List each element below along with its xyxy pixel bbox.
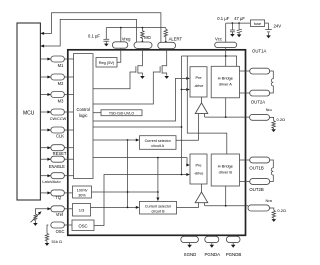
wire H-bridge B to NFB bbox=[205, 186, 248, 207]
pin OSC bbox=[51, 222, 72, 234]
Vreg pull-up rail bbox=[106, 27, 166, 29]
sense resistor RNFA 0.2ohm bbox=[269, 117, 285, 129]
svg-text:NFB: NFB bbox=[266, 199, 273, 203]
svg-text:OUT1A: OUT1A bbox=[252, 48, 266, 53]
svg-text:H-Bridge: H-Bridge bbox=[218, 76, 233, 81]
pin MO bbox=[134, 35, 152, 48]
comparator amp A bbox=[195, 97, 208, 114]
wire MCU to Latch/Auto bbox=[40, 175, 48, 177]
ground below PGNDB bbox=[231, 243, 236, 248]
pin ENABLE bbox=[49, 156, 74, 169]
wire Vcc rail to H-bridge B bbox=[187, 56, 227, 154]
svg-text:Pre: Pre bbox=[195, 163, 201, 168]
wire control logic to pre-drive A input 2 bbox=[93, 56, 190, 175]
wire current selector B to amp B bbox=[177, 203, 199, 208]
svg-text:100%/: 100%/ bbox=[77, 189, 89, 193]
svg-text:Current selector: Current selector bbox=[145, 139, 172, 143]
svg-text:0.1 μF: 0.1 μF bbox=[217, 16, 229, 21]
svg-text:24V: 24V bbox=[274, 23, 282, 28]
svg-text:Vcc: Vcc bbox=[215, 36, 222, 41]
pin PGNDA bbox=[204, 236, 220, 257]
ground below C1 bbox=[104, 41, 109, 46]
svg-text:MO: MO bbox=[144, 35, 151, 40]
svg-text:driver A: driver A bbox=[219, 82, 233, 87]
wire H-bridge A to OUT2A bbox=[240, 92, 250, 94]
pin RESET bbox=[51, 145, 74, 157]
svg-text:OSC: OSC bbox=[78, 224, 87, 229]
wire MCU to TQ bbox=[40, 192, 48, 194]
MOSFET Q2 (ALERT output) bbox=[160, 49, 167, 76]
ground at Q1 source bbox=[140, 76, 145, 79]
pin ALERT bbox=[158, 37, 183, 49]
wire to current selector B top bbox=[156, 158, 159, 202]
MCU block bbox=[17, 23, 40, 200]
wire MCU to M3 bbox=[40, 94, 48, 96]
svg-text:PGNDB: PGNDB bbox=[226, 252, 242, 257]
pull-up resistor on MO bbox=[141, 28, 144, 43]
pin OUT2A bbox=[250, 90, 270, 104]
wire H-bridge B to OUT2B bbox=[240, 181, 250, 183]
wire H-bridge B to OUT1B bbox=[240, 159, 250, 161]
ground below C2 bbox=[230, 32, 235, 37]
sense resistor RNFB 0.2ohm bbox=[269, 208, 286, 219]
motor winding A bbox=[269, 71, 273, 93]
svg-text:M1: M1 bbox=[58, 63, 64, 68]
svg-text:Vreg: Vreg bbox=[122, 37, 131, 42]
svg-text:TSD·ISD·UVLO: TSD·ISD·UVLO bbox=[109, 111, 135, 115]
ground below RNFA bbox=[271, 129, 276, 132]
battery 24V bbox=[265, 23, 281, 32]
svg-text:47 μF: 47 μF bbox=[234, 16, 245, 21]
wire current selector A to amp A bbox=[176, 114, 198, 141]
svg-text:Pre: Pre bbox=[195, 75, 201, 80]
potentiometer VR1 on Vref bbox=[31, 207, 52, 222]
motor winding B bbox=[269, 160, 273, 182]
svg-text:TQ: TQ bbox=[55, 195, 61, 200]
current selector circuit B block bbox=[140, 201, 177, 214]
pin CW/CCW bbox=[50, 109, 74, 121]
Vcc internal rail bbox=[182, 48, 237, 67]
svg-text:PGNDA: PGNDA bbox=[204, 252, 220, 257]
pin PGNDB bbox=[226, 236, 242, 257]
svg-text:ALERT: ALERT bbox=[169, 37, 183, 42]
resistor R-OSC 51k bbox=[45, 225, 62, 244]
wire control logic to current selector A bbox=[93, 139, 139, 142]
wire control logic to pre-drive A input 1 bbox=[93, 77, 190, 121]
svg-text:Latch/Auto: Latch/Auto bbox=[42, 180, 60, 184]
wire MCU to RESET bbox=[40, 147, 48, 149]
ground below potentiometer bbox=[33, 221, 38, 226]
wire H-bridge A to NFA bbox=[205, 98, 250, 118]
svg-text:1/3: 1/3 bbox=[79, 208, 85, 213]
svg-text:MCU: MCU bbox=[23, 111, 35, 117]
pin OUT1B bbox=[249, 157, 269, 170]
TSD ISD UVLO block bbox=[101, 110, 142, 116]
100%/30% block bbox=[73, 186, 92, 198]
wire MCU to CLK bbox=[40, 129, 48, 131]
wire node vertical to current selector B side bbox=[127, 140, 129, 207]
wire MCU to ENABLE bbox=[40, 158, 48, 160]
pre-drive A block bbox=[190, 67, 207, 97]
svg-text:OUT2B: OUT2B bbox=[249, 187, 263, 192]
pin CLK bbox=[51, 127, 74, 138]
svg-text:0.2Ω: 0.2Ω bbox=[277, 117, 286, 122]
ground below C3 bbox=[237, 32, 242, 37]
ground below SGND bbox=[187, 243, 192, 248]
svg-text:51k Ω: 51k Ω bbox=[52, 239, 63, 244]
pin SGND bbox=[181, 236, 199, 257]
wire amp A feedback input bbox=[204, 114, 206, 118]
svg-text:logic: logic bbox=[79, 113, 88, 118]
H-bridge driver B block bbox=[211, 154, 239, 186]
wire control logic to TSD block bbox=[93, 112, 101, 114]
ground below PGNDA bbox=[210, 243, 215, 248]
wire 100%/30% block output bbox=[92, 191, 158, 193]
wire control logic to pre-drive B input 1 bbox=[93, 157, 190, 167]
wire control logic to MOSFET Q2 gate bbox=[93, 72, 160, 104]
IC U1 package outline bbox=[68, 50, 246, 236]
ground below RNFB bbox=[272, 219, 277, 222]
pin Vreg bbox=[112, 28, 131, 49]
Reg (5V) block bbox=[96, 48, 121, 67]
wire OSC block to pre-drive B input 2 bbox=[94, 173, 190, 226]
wire MCU to M2 bbox=[40, 76, 48, 78]
svg-text:RESET: RESET bbox=[53, 151, 67, 156]
H-bridge driver A block bbox=[211, 66, 239, 98]
svg-text:Reg (5V): Reg (5V) bbox=[99, 60, 115, 65]
svg-text:circuit B: circuit B bbox=[151, 210, 165, 214]
wire control logic to MOSFET Q1 gate bbox=[93, 72, 136, 89]
pull-up resistor on ALERT bbox=[164, 28, 167, 43]
pin NFB bbox=[248, 199, 272, 211]
wire ALERT to MCU bbox=[44, 13, 161, 43]
svg-text:CW/CCW: CW/CCW bbox=[50, 117, 67, 121]
svg-text:Current selector: Current selector bbox=[145, 204, 172, 208]
capacitor C2 0.1uF on Vcc bbox=[217, 16, 235, 32]
1/3 block bbox=[73, 204, 91, 217]
ground below battery bbox=[266, 33, 271, 39]
comparator amp B bbox=[195, 184, 208, 203]
control logic block bbox=[74, 54, 94, 179]
svg-text:circuit A: circuit A bbox=[151, 144, 164, 148]
svg-text:SGND: SGND bbox=[184, 252, 197, 257]
svg-text:M2: M2 bbox=[58, 81, 64, 86]
arrowhead into MCU (ALERT line) bbox=[40, 32, 44, 35]
svg-text:30%: 30% bbox=[78, 194, 86, 198]
pin Vcc bbox=[215, 23, 237, 48]
capacitor C1 0.1uF on Vreg bbox=[88, 28, 109, 42]
pin OUT1A bbox=[250, 48, 270, 74]
capacitor C3 47uF electrolytic on Vcc bbox=[234, 16, 245, 33]
svg-text:-drive: -drive bbox=[194, 83, 204, 88]
svg-text:OUT2A: OUT2A bbox=[251, 100, 265, 105]
svg-text:OUT1B: OUT1B bbox=[249, 166, 263, 171]
svg-text:ENABLE: ENABLE bbox=[49, 164, 65, 169]
OSC block bbox=[72, 220, 94, 231]
pre-drive B block bbox=[190, 154, 207, 184]
pin NFA bbox=[250, 108, 273, 120]
svg-text:Control: Control bbox=[76, 107, 90, 112]
svg-text:OSC: OSC bbox=[56, 229, 65, 234]
pin M1 bbox=[51, 56, 74, 68]
fuse F1 bbox=[250, 20, 268, 27]
pin TQ bbox=[51, 190, 73, 200]
arrowhead into MCU (MO line) bbox=[40, 45, 44, 48]
wire MO to MCU bbox=[44, 19, 137, 46]
wire H-bridge A to OUT1A bbox=[240, 70, 250, 72]
svg-text:H-Bridge: H-Bridge bbox=[218, 164, 233, 169]
svg-text:0.1 μF: 0.1 μF bbox=[88, 33, 100, 38]
current selector circuit A block bbox=[140, 136, 177, 150]
svg-text:NFA: NFA bbox=[266, 108, 272, 112]
MOSFET Q1 (MO output) bbox=[136, 48, 143, 75]
pin M2 bbox=[51, 74, 74, 86]
Vcc supply rail external bbox=[226, 22, 251, 24]
svg-text:CLK: CLK bbox=[56, 133, 64, 138]
svg-text:Vref: Vref bbox=[56, 212, 64, 217]
svg-text:0.2Ω: 0.2Ω bbox=[277, 208, 286, 213]
svg-text:M3: M3 bbox=[58, 98, 64, 103]
wire 1/3 block to current selector B bbox=[91, 206, 140, 209]
svg-text:fuse: fuse bbox=[254, 22, 261, 26]
pin OUT2B bbox=[249, 179, 269, 192]
pin Vref bbox=[51, 206, 73, 217]
wire amp B feedback input bbox=[204, 203, 206, 206]
pin M3 bbox=[51, 92, 74, 104]
ground below R-OSC bbox=[45, 242, 50, 246]
svg-text:driver B: driver B bbox=[219, 170, 233, 175]
wire MCU to M1 bbox=[40, 58, 48, 60]
ground at Q2 source bbox=[164, 76, 169, 79]
svg-text:-drive: -drive bbox=[194, 171, 204, 176]
wire MCU to CW/CCW bbox=[40, 111, 48, 113]
pin Latch/Auto bbox=[42, 173, 73, 184]
